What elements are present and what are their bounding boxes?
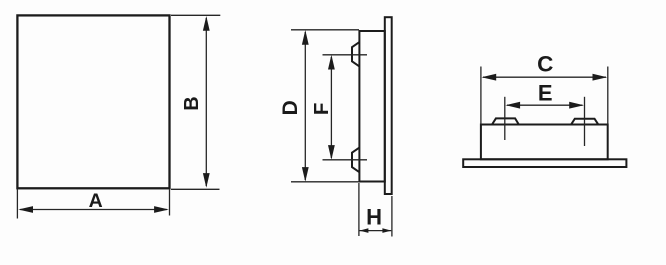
svg-text:F: F bbox=[310, 103, 333, 116]
dim B extension line bottom bbox=[171, 188, 220, 190]
top view right tab bbox=[571, 119, 599, 125]
svg-text:A: A bbox=[89, 190, 103, 212]
svg-text:D: D bbox=[279, 100, 302, 115]
dim A left arrowhead bbox=[18, 206, 33, 213]
dim F extension line bottom bbox=[323, 159, 368, 161]
panel front view square bbox=[17, 15, 169, 188]
dim D top arrowhead bbox=[302, 30, 309, 45]
dim H extension line right bbox=[391, 196, 393, 237]
dim E left arrowhead bbox=[505, 102, 520, 109]
side view lower mounting tab bbox=[352, 148, 359, 173]
side view flange plate bbox=[385, 17, 392, 194]
top view left tab bbox=[492, 118, 519, 124]
dim D extension line top bbox=[291, 29, 359, 31]
dim C extension line left bbox=[480, 67, 482, 125]
dim H left arrowhead bbox=[359, 228, 368, 233]
side view body bbox=[359, 31, 384, 182]
dim C line bbox=[483, 76, 606, 78]
dim B bottom arrowhead bbox=[203, 173, 210, 188]
dim H right arrowhead bbox=[382, 228, 391, 233]
dim D bottom arrowhead bbox=[302, 167, 309, 182]
dim D line bbox=[304, 32, 306, 180]
dim A extension line right bbox=[169, 190, 171, 216]
dim C extension line right bbox=[607, 67, 609, 125]
svg-text:E: E bbox=[538, 81, 553, 106]
dim H extension line left bbox=[358, 183, 360, 236]
dim F top arrowhead bbox=[328, 55, 335, 70]
dim H line bbox=[360, 230, 392, 232]
dim B top arrowhead bbox=[203, 16, 210, 31]
dim E right arrowhead bbox=[569, 102, 584, 109]
dim D extension line bottom bbox=[291, 181, 359, 183]
dim E line bbox=[507, 104, 583, 106]
dim E extension line left bbox=[504, 97, 506, 140]
dim A extension line left bbox=[16, 190, 18, 219]
dim C left arrowhead bbox=[482, 74, 497, 81]
top view body bbox=[481, 125, 608, 160]
svg-text:H: H bbox=[366, 205, 382, 230]
dim B extension line top bbox=[171, 14, 220, 16]
dim F line bbox=[330, 57, 332, 158]
svg-text:C: C bbox=[537, 52, 553, 77]
side view upper mounting tab bbox=[352, 42, 359, 66]
dim A line bbox=[20, 209, 167, 211]
dim E extension line right bbox=[584, 97, 586, 146]
svg-text:B: B bbox=[181, 96, 203, 110]
dim F extension line top bbox=[323, 54, 368, 56]
dim A right arrowhead bbox=[154, 206, 169, 213]
dim B line bbox=[205, 18, 207, 186]
top view base plate bbox=[463, 159, 626, 167]
dim C right arrowhead bbox=[593, 74, 608, 81]
dim F bottom arrowhead bbox=[328, 145, 335, 160]
